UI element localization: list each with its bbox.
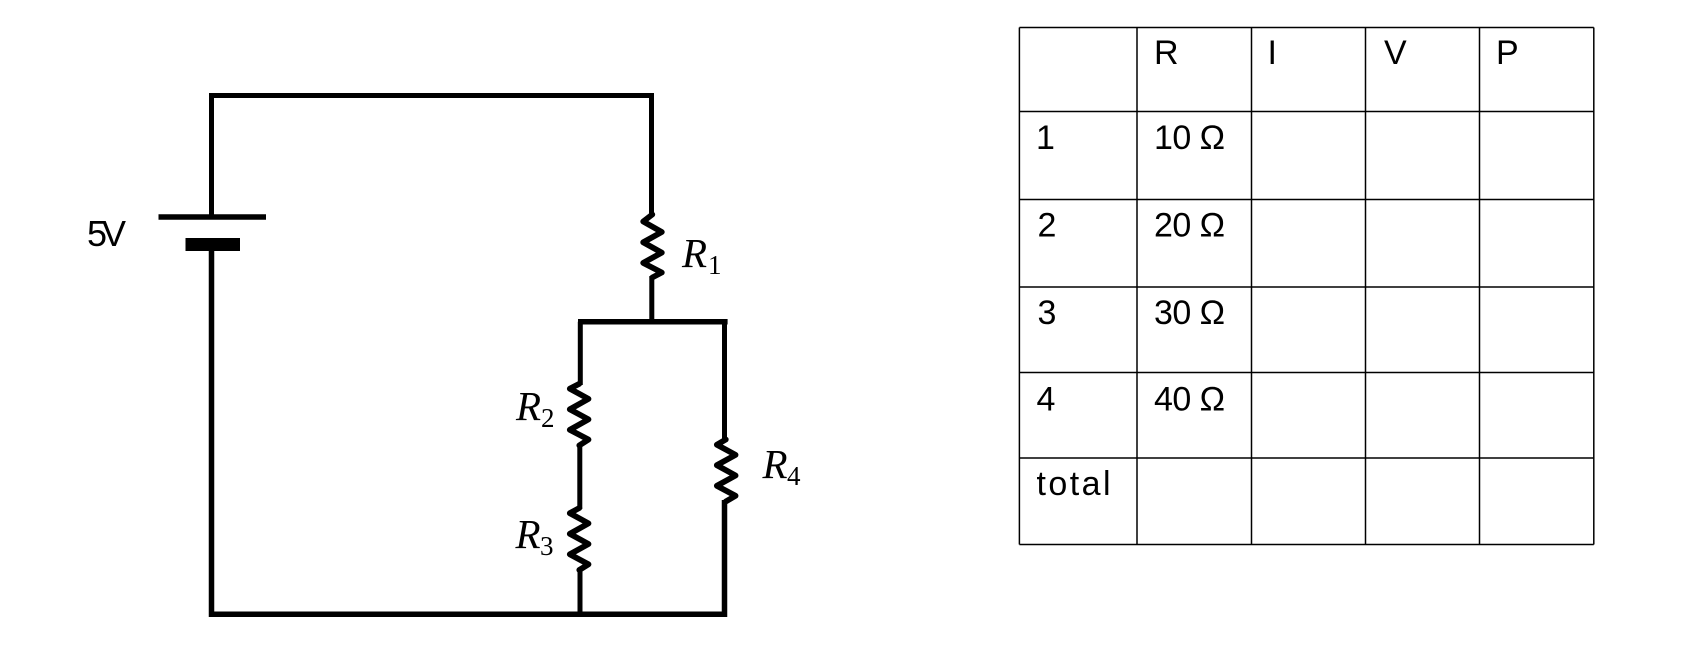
battery B1 top plate (positive, long) [159,214,267,220]
table header labels R I V P [1154,34,1519,72]
svg-text:4: 4 [1037,381,1056,419]
results table grid [1019,28,1593,545]
wire: R3 bottom stub to bottom rail [578,569,583,617]
label R2 [515,383,555,433]
label R3 [515,511,554,561]
wire: R1 bottom stub to parallel node bar [649,276,654,322]
svg-text:40 Ω: 40 Ω [1154,381,1225,419]
svg-text:20 Ω: 20 Ω [1154,207,1225,245]
svg-text:V: V [1384,34,1407,72]
wire: right parallel branch upper stub to R4 [722,322,727,441]
svg-text:10 Ω: 10 Ω [1154,119,1225,157]
svg-text:1: 1 [708,250,722,280]
wire: left parallel branch upper stub to R2 [578,322,583,385]
svg-text:total: total [1037,465,1111,503]
resistor R1 zigzag [643,215,662,278]
wire: top loop from battery positive up, across, down to R1 [212,96,652,218]
svg-text:2: 2 [541,403,555,433]
label R1 [681,230,722,280]
svg-text:1: 1 [1036,119,1055,157]
node bar: top of parallel section [578,319,728,325]
svg-text:I: I [1268,34,1277,72]
wire: between R2 and R3 [577,444,582,509]
table column lines [1018,28,1020,545]
svg-text:2: 2 [1038,207,1057,245]
battery B1 bottom plate (negative, short thick) [186,238,241,251]
svg-text:P: P [1496,34,1519,72]
svg-text:5V: 5V [87,213,126,254]
svg-text:R: R [681,230,707,276]
svg-text:R: R [515,511,541,557]
table row labels and resistance values [1036,119,1225,503]
svg-text:3: 3 [540,531,554,561]
svg-text:R: R [1154,34,1179,72]
resistor R3 zigzag [570,508,589,570]
resistor R2 zigzag [570,384,589,446]
resistor R4 zigzag [717,440,736,502]
wire: battery negative down, bottom rail, up to R4 branch [212,246,725,614]
svg-text:R: R [515,383,541,429]
label R4 [762,441,802,491]
svg-text:R: R [762,441,788,487]
table outer border and row lines [1019,27,1593,29]
svg-text:4: 4 [787,461,801,491]
svg-text:3: 3 [1038,294,1057,332]
svg-text:30 Ω: 30 Ω [1154,294,1225,332]
